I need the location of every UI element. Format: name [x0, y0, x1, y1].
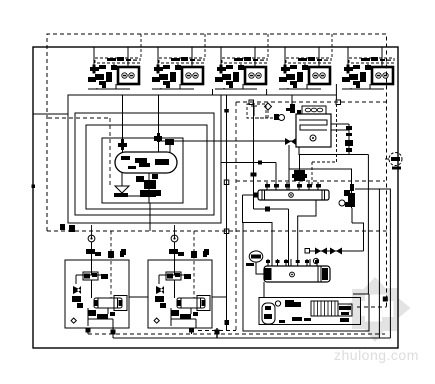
thermometer circle [313, 258, 318, 263]
node square lower [224, 229, 229, 234]
watermark logo [344, 277, 411, 342]
tank down pipe to lower header [149, 203, 151, 231]
gauge label blob [391, 157, 400, 161]
stub riser [275, 163, 277, 191]
drain funnel [115, 186, 129, 193]
control dashed to manifold [312, 161, 337, 163]
manifold left cap [261, 190, 263, 200]
vertical receiver tank [262, 303, 275, 324]
tank riser pipe 2 [158, 95, 160, 152]
right riser [348, 124, 350, 155]
dashed control into plate unit [357, 306, 387, 308]
tank box rect D [102, 138, 183, 203]
sight circle dot [312, 137, 314, 139]
valve on stub 3 [165, 139, 174, 145]
exchanger outlet pipes right [331, 123, 349, 125]
exchanger sight circle [310, 135, 316, 141]
coil hatch [314, 301, 335, 316]
dashed drain control line vertical [109, 118, 111, 187]
chiller equipment box [259, 298, 361, 325]
drain pipe [121, 173, 123, 186]
tank-to-manifold supply line [221, 162, 276, 164]
manifold right cap [321, 190, 323, 200]
cylinder left cap [265, 268, 272, 280]
supply line to pump column [289, 169, 352, 208]
right bus vertical [226, 95, 228, 331]
feed column from node [253, 104, 255, 209]
tank label blobs [121, 156, 169, 169]
node on supply line [258, 161, 262, 165]
exchanger down pipe [288, 145, 290, 190]
right return drop [353, 155, 368, 295]
bottom header solid [113, 337, 390, 339]
baseline drop 1 [212, 89, 214, 95]
pressure gauge PID [389, 153, 402, 166]
left border link line [33, 113, 68, 115]
dashed pilot line [255, 117, 278, 119]
heat exchanger top cap [302, 106, 326, 114]
condenser outlet drop [263, 282, 265, 298]
manifold inlet flange [253, 193, 258, 198]
drain line horizontal [118, 195, 149, 197]
buffer tank T1 [115, 152, 177, 173]
manifold stubs [267, 182, 318, 190]
cylinder center dot [290, 272, 295, 277]
valve on riser 1 [118, 139, 127, 150]
module risers to headers [88, 225, 217, 338]
safety valve stem dashed [267, 110, 269, 118]
box label blobs [279, 317, 349, 323]
node square on dashed top line left [249, 100, 254, 105]
manifold bottom return [298, 200, 316, 259]
pump circle right of manifold [339, 200, 345, 206]
manifold left feed pipe [243, 194, 259, 196]
bowtie valve A [315, 248, 327, 255]
baseline drop 2 [266, 89, 268, 95]
AHU unit 3 [215, 47, 267, 89]
tank enclosure rect A [68, 95, 221, 223]
riser fittings [345, 126, 353, 152]
valve line right [310, 250, 364, 252]
module 1 link to module 2 [129, 296, 148, 298]
valve on riser 2 [154, 133, 162, 142]
pump feed drop [299, 155, 301, 173]
inlet bowtie valve [285, 138, 296, 145]
exchanger coil [299, 120, 327, 130]
pump circle in box [275, 301, 280, 306]
right system dashed top line [236, 101, 387, 103]
node square on dashed top line right [336, 100, 341, 105]
feed run to chiller riser [254, 208, 289, 210]
main supply header extension [221, 94, 336, 96]
compressor coil unit [311, 301, 338, 316]
drain base [114, 193, 128, 197]
chiller left frame [243, 223, 369, 332]
inner header drop [378, 189, 380, 338]
manifold center dot [289, 193, 294, 198]
gauge text blob [251, 255, 261, 259]
node square upper [224, 180, 229, 185]
chiller dashed enclosure top [236, 180, 385, 182]
header line y189 [355, 189, 390, 338]
cap ovals [305, 108, 323, 112]
gauge sub label [246, 263, 254, 266]
chiller riser 2 [288, 209, 290, 266]
bottom header dashed [88, 333, 385, 335]
pump on down pipe [292, 170, 307, 181]
exchanger inlet tap [291, 95, 293, 108]
tank stub pipe 3 [169, 141, 171, 152]
AHU unit 2 [152, 47, 204, 89]
stub valve ticks [266, 260, 319, 263]
exchanger inlet valve blobs [286, 104, 301, 114]
filter blobs [285, 300, 301, 307]
pump module control drops dashed [111, 231, 194, 298]
chiller dashed enclosure left [235, 102, 237, 331]
instrument flags on control line [60, 224, 209, 255]
AHU unit 4 [279, 47, 331, 89]
bottom exit squares [86, 328, 220, 335]
chiller dashed stub left [198, 330, 236, 332]
header riser to unit 5 [335, 84, 337, 100]
cylinder top stubs [268, 259, 317, 266]
exchanger bottom outlet run [299, 147, 368, 155]
safety valve diamond [265, 103, 272, 110]
condenser side box [338, 304, 352, 316]
module baseline header [88, 88, 384, 90]
expansion tank dashed box [247, 104, 266, 118]
valve tick on feed run [265, 207, 270, 212]
cylinder right cap [318, 266, 321, 282]
bowtie valve B [330, 248, 342, 255]
AHU unit 5 [342, 47, 394, 89]
manifold right pump group [344, 184, 355, 207]
outer border [33, 47, 398, 348]
gauge stem [256, 262, 264, 274]
pilot valve blob [274, 114, 279, 120]
node on dashed side line [383, 297, 388, 302]
chiller gauge [249, 251, 263, 262]
svg-text:zhulong.com: zhulong.com [334, 347, 419, 363]
tick on feed column [251, 173, 257, 177]
pilot valve circle [279, 115, 285, 121]
stub valve ticks [265, 184, 321, 188]
tank riser pipe 1 [122, 95, 124, 152]
gauge underline [392, 167, 401, 170]
node on left border [32, 185, 36, 189]
tank bottom assembly [136, 174, 161, 197]
main dashed enclosure [47, 34, 387, 307]
dashed drain control line horizontal [48, 117, 110, 119]
tick on bus [224, 109, 229, 113]
manifold header [258, 190, 329, 200]
tank enclosure rect C [86, 125, 207, 209]
supply line to heat exchanger [158, 140, 296, 142]
pump module 2 [148, 235, 212, 328]
tank enclosure rect B [75, 113, 214, 215]
pump column lower link [352, 223, 364, 251]
manifold feed drop [243, 195, 273, 266]
AHU unit 1 [88, 47, 140, 89]
module 2 link to bus [212, 296, 227, 298]
control dashed drop from node [336, 104, 338, 162]
heat exchanger body U2 [296, 114, 331, 147]
expansion tank symbol [251, 106, 257, 116]
top square node [305, 249, 310, 254]
tank bottom pipe [148, 173, 150, 203]
control wiring dashed drops [141, 34, 332, 58]
tick low on bus [225, 320, 230, 325]
pump module 1 [65, 235, 129, 328]
evaporator cylinder [264, 266, 330, 282]
gauge link tick [385, 158, 389, 160]
lower control dashed line [47, 230, 387, 232]
